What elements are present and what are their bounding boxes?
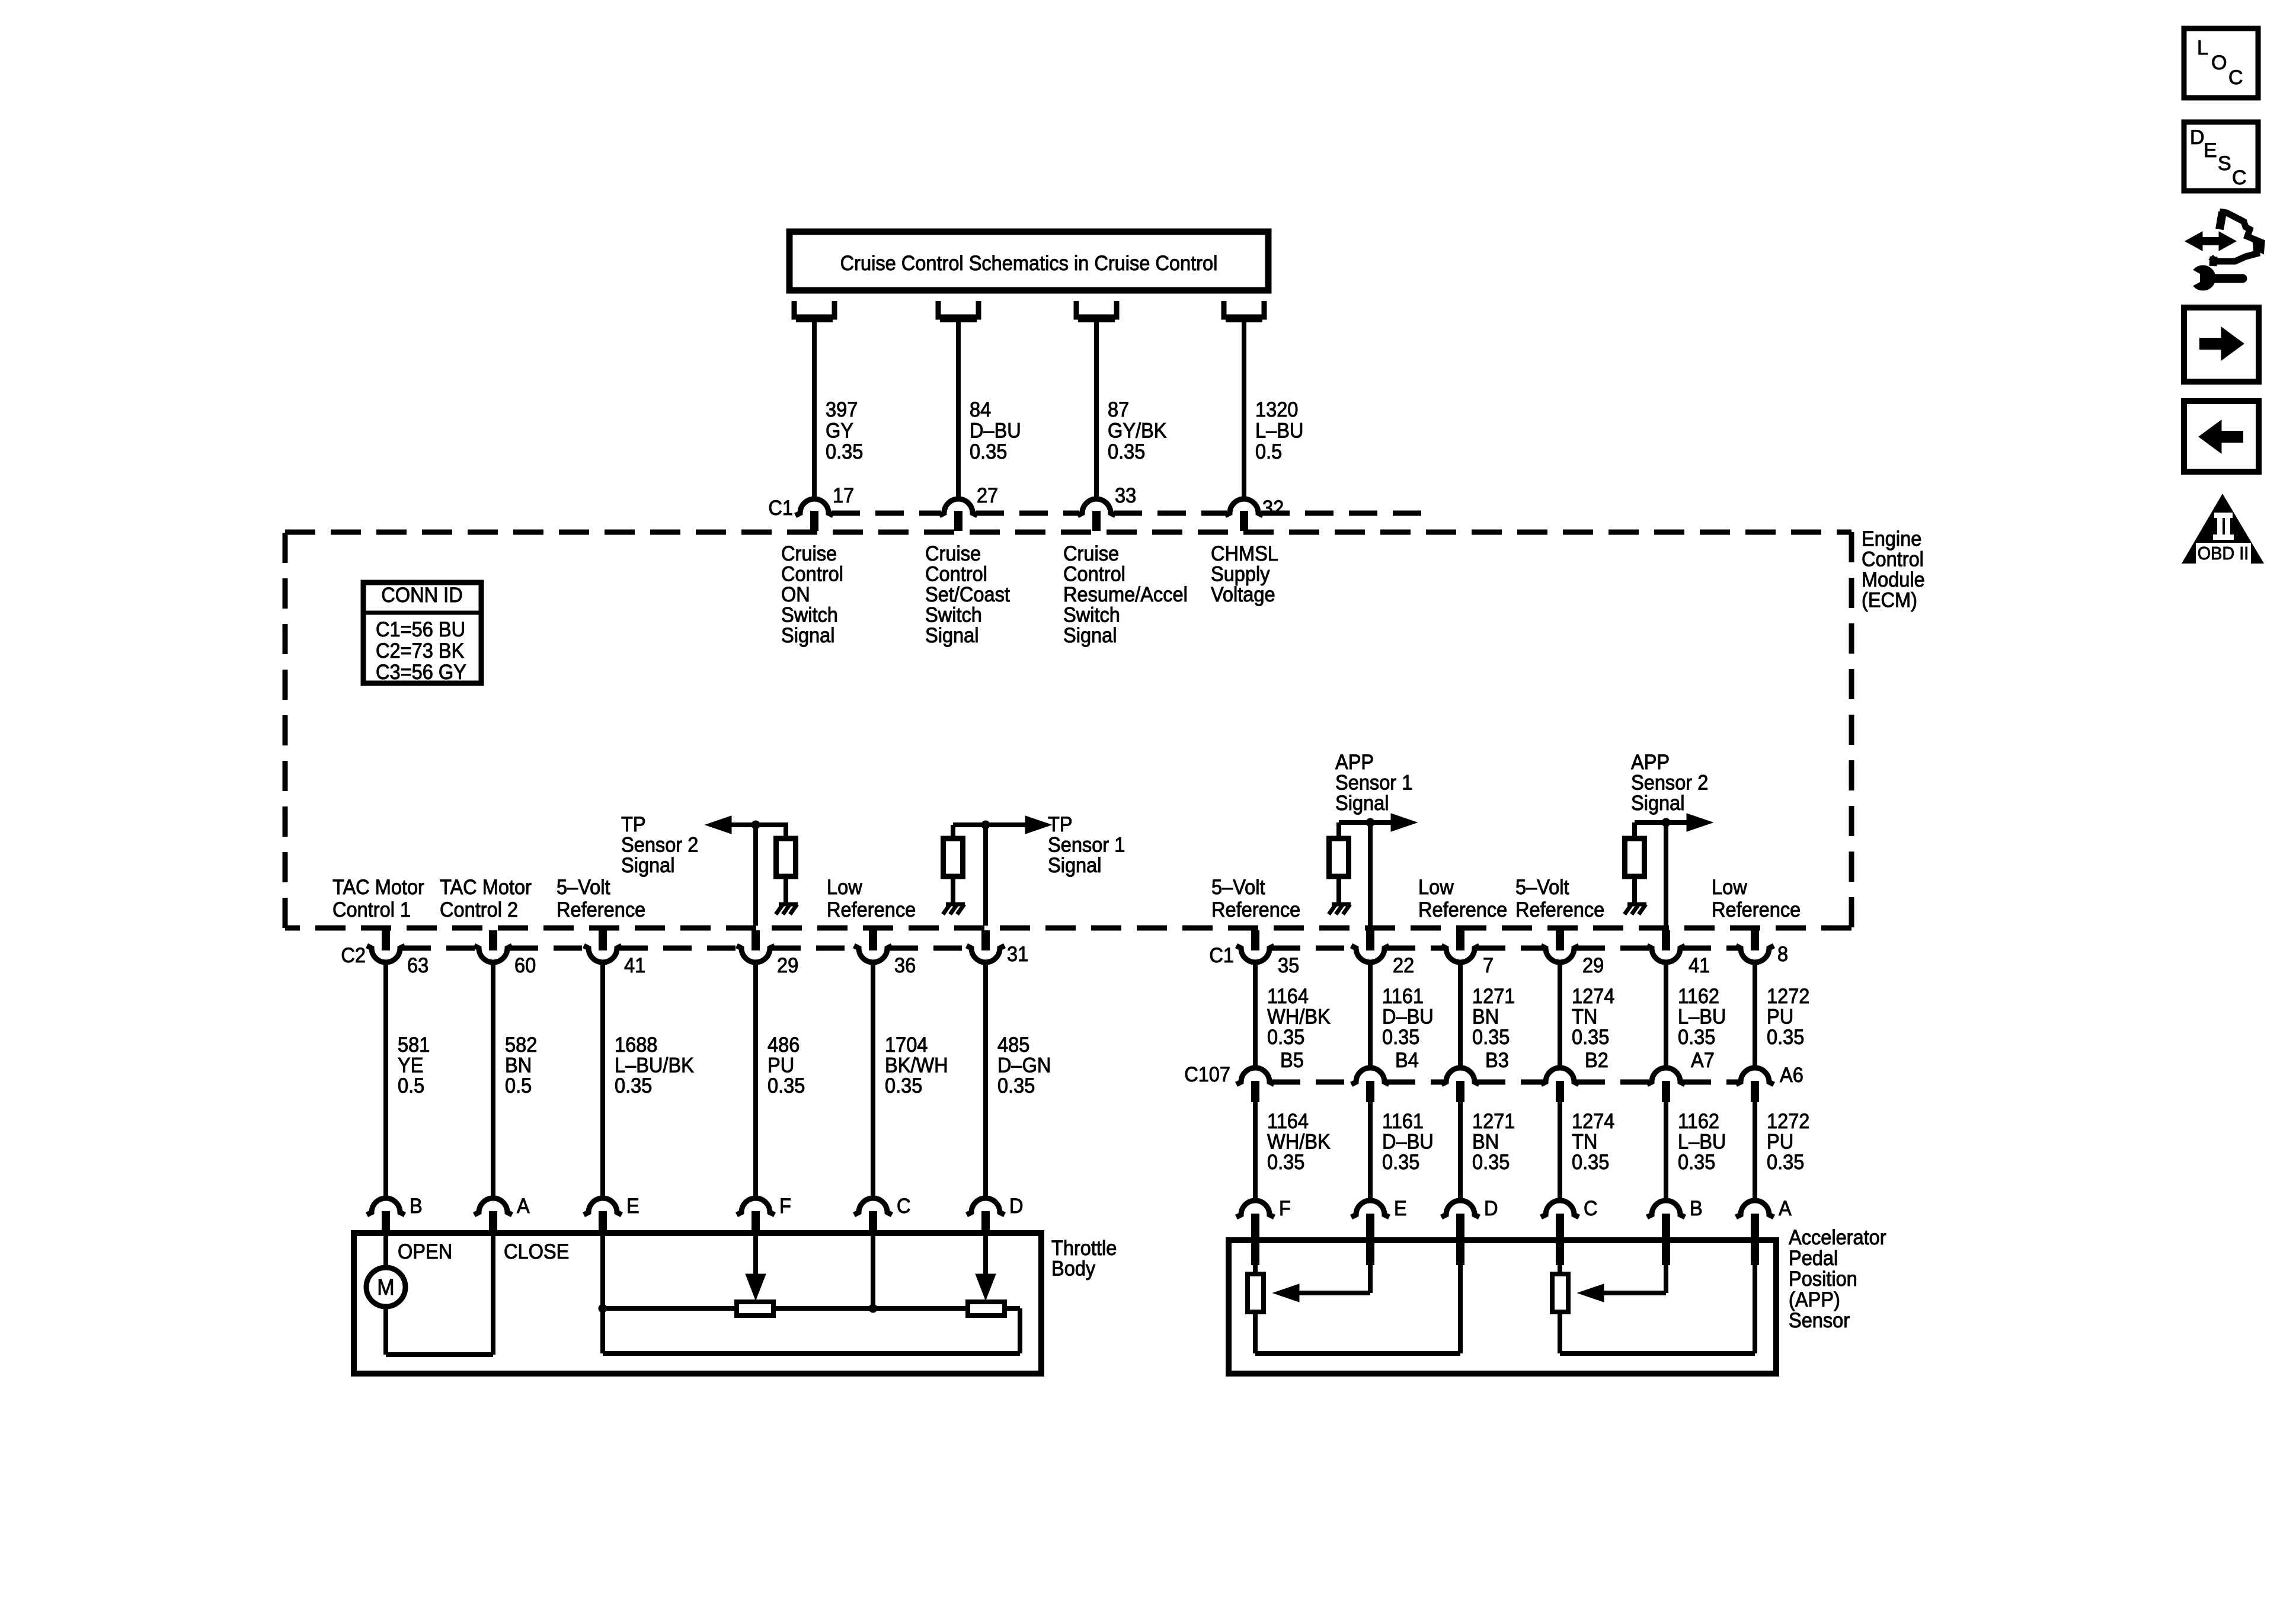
svg-text:32: 32 [1262,497,1284,520]
throttle body pin D terminal [967,1198,1005,1233]
ground symbol APP sensor 1 [1329,904,1351,914]
LOC icon box [2184,28,2258,98]
ECM name label [1862,527,1925,612]
wire label 1272 PU 0.35 (upper) [1767,985,1809,1049]
svg-text:L–BU: L–BU [1678,1006,1726,1029]
svg-text:A: A [517,1195,530,1218]
C2 pin 36 terminal [854,930,892,962]
svg-text:E: E [2204,139,2217,162]
wire label 582 BN 0.5 [505,1033,537,1097]
svg-text:29: 29 [777,954,798,977]
svg-text:Module: Module [1862,568,1925,591]
svg-text:0.5: 0.5 [1255,440,1282,463]
svg-text:B: B [410,1195,423,1218]
Accelerator Pedal Position sensor box [1229,1240,1776,1374]
inline connector bracket 3 below title box [1076,301,1117,319]
svg-text:Switch: Switch [925,604,982,627]
throttle motor M [366,1267,405,1307]
svg-text:PU: PU [1767,1006,1793,1029]
svg-text:0.35: 0.35 [1678,1151,1715,1174]
C1 pin number 27 [977,484,998,507]
svg-text:L–BU: L–BU [1678,1131,1726,1154]
C2 pin 63 terminal [367,930,405,962]
wire pin C low reference [871,1233,875,1308]
C1 pin number 7 [1483,954,1494,977]
svg-text:D–BU: D–BU [1382,1131,1434,1154]
C1 pin number 29 [1582,954,1604,977]
svg-text:C1: C1 [768,497,793,520]
svg-text:YE: YE [398,1054,423,1077]
svg-text:1274: 1274 [1572,1110,1614,1133]
resistor pull-up TP sensor 1 [944,838,963,876]
svg-text:60: 60 [514,954,536,977]
connector C1 top row dashed line [832,511,1422,516]
ground symbol APP sensor 2 [1625,904,1646,914]
svg-text:C1=56 BU: C1=56 BU [376,618,465,641]
ECM pin function label Low Reference [1418,876,1507,921]
wire label 397 GY 0.35 [826,398,863,463]
svg-text:33: 33 [1115,484,1136,507]
C1 pin number 35 [1278,954,1299,977]
C107 pin B5 terminal [1236,1068,1274,1102]
svg-text:485: 485 [997,1033,1029,1057]
ground symbol TP sensor 1 [943,904,965,914]
svg-text:D: D [1484,1197,1498,1220]
svg-text:Reference: Reference [1712,898,1801,921]
svg-text:GY: GY [826,420,853,443]
throttle body pin A terminal [474,1198,512,1233]
svg-text:0.35: 0.35 [826,440,863,463]
wire label 1320 L–BU 0.5 [1255,398,1303,463]
svg-text:1161: 1161 [1382,985,1424,1008]
throttle body pin E terminal [584,1198,622,1233]
svg-text:D: D [1009,1195,1024,1218]
svg-text:Reference: Reference [1515,898,1604,921]
wire label 87 GY/BK 0.35 [1108,398,1167,463]
C2 pin number 29 [777,954,798,977]
svg-text:Signal: Signal [781,624,835,647]
svg-text:0.35: 0.35 [970,440,1007,463]
svg-text:Reference: Reference [1418,898,1507,921]
svg-text:Low: Low [827,876,862,899]
signal label Cruise Control ON Switch Signal [781,542,843,647]
svg-text:CONN ID: CONN ID [381,584,462,607]
TP sensor 1 signal node: arrow wire junction [953,816,1051,926]
throttle body pin letter C [897,1195,911,1218]
svg-text:GY/BK: GY/BK [1108,420,1167,443]
C1 pin 8 terminal [1736,930,1774,962]
svg-text:D–BU: D–BU [970,420,1021,443]
svg-text:0.35: 0.35 [1472,1026,1510,1049]
svg-text:Sensor 2: Sensor 2 [621,834,698,857]
svg-text:35: 35 [1278,954,1299,977]
Throttle Body label [1051,1237,1117,1281]
svg-text:Cruise: Cruise [781,542,837,565]
svg-text:0.35: 0.35 [1767,1151,1804,1174]
svg-text:0.35: 0.35 [1108,440,1145,463]
APP sensor pin B terminal [1647,1201,1685,1265]
C1 pin 22 terminal [1351,930,1389,962]
svg-text:C: C [2232,167,2247,189]
OBD II triangle icon [2182,494,2264,564]
svg-text:B4: B4 [1395,1049,1419,1072]
svg-text:Signal: Signal [1335,792,1389,815]
TP sensor 1 potentiometer [968,1302,1005,1315]
ECM pin function label 5–Volt Reference [557,876,645,921]
svg-text:BK/WH: BK/WH [885,1054,948,1077]
svg-text:5–Volt: 5–Volt [1211,876,1265,899]
wire TP pot 1 right side return loop [603,1308,1020,1353]
wire label 1704 BK/WH 0.35 [885,1033,948,1097]
svg-text:0.35: 0.35 [1472,1151,1510,1174]
connector C107 label [1184,1063,1230,1086]
wire 1320 L-BU from switch to ECM C1 [1242,321,1246,500]
APP Sensor 1 Signal label [1335,751,1412,815]
throttle body pin B terminal [367,1198,405,1233]
wire 1274 TN ECM to C107 [1558,962,1562,1070]
C2 pin number 41 [624,954,645,977]
svg-text:Low: Low [1712,876,1747,899]
C2 pin number 60 [514,954,536,977]
svg-text:Control 2: Control 2 [440,898,518,921]
wire resistor to ground [784,876,788,904]
svg-text:41: 41 [624,954,645,977]
ECM pin function label TAC Motor Control 1 [332,876,424,921]
connector C2 label [341,944,366,967]
wire label 1161 D–BU 0.35 (upper) [1382,985,1434,1049]
C2 pin 31 terminal [967,930,1005,962]
svg-text:Resume/Accel: Resume/Accel [1063,583,1188,606]
APP Sensor 2 Signal label [1631,751,1708,815]
svg-text:Sensor 1: Sensor 1 [1335,772,1412,795]
C2 pin 60 terminal [474,930,512,962]
Engine Control Module (ECM) dashed box [285,532,1851,928]
svg-text:17: 17 [833,484,854,507]
CONN ID table [363,582,481,684]
ECM pin function label Low Reference [1712,876,1801,921]
wire 486 PU to throttle body [753,962,758,1199]
ECM pin function label 5–Volt Reference [1211,876,1300,921]
svg-text:WH/BK: WH/BK [1267,1006,1331,1029]
svg-text:0.35: 0.35 [1572,1026,1609,1049]
APP sensor name label [1789,1226,1886,1332]
svg-text:486: 486 [768,1033,800,1057]
svg-text:87: 87 [1108,398,1129,421]
wire pin C to APP pot 2 top [1558,1240,1562,1274]
svg-text:1272: 1272 [1767,1110,1809,1133]
svg-text:Signal: Signal [1631,792,1685,815]
svg-text:41: 41 [1689,954,1710,977]
C107 pin letter B4 [1395,1049,1419,1072]
svg-text:Throttle: Throttle [1051,1237,1117,1260]
svg-text:Signal: Signal [621,854,675,877]
svg-text:582: 582 [505,1033,537,1057]
svg-text:O: O [2211,52,2227,74]
svg-text:Sensor 2: Sensor 2 [1631,772,1708,795]
connector C1 bottom dashed line [1272,946,1738,951]
svg-text:Control: Control [1862,548,1924,571]
forward arrow icon box [2184,308,2259,382]
svg-text:0.35: 0.35 [1382,1151,1419,1174]
wire 1162 L–BU C107 to APP sensor [1664,1102,1668,1202]
svg-text:22: 22 [1393,954,1414,977]
inline connector bracket 1 below title box [794,301,834,319]
ECM pin function label TAC Motor Control 2 [440,876,532,921]
svg-text:APP: APP [1335,751,1374,774]
svg-text:Cruise: Cruise [1063,542,1119,565]
C1 pin number 41 [1689,954,1710,977]
svg-text:1164: 1164 [1267,985,1309,1008]
svg-text:Control: Control [1063,563,1125,586]
C2 pin 41 terminal [584,930,622,962]
svg-text:WH/BK: WH/BK [1267,1131,1331,1154]
wire 1162 L–BU ECM to C107 [1664,962,1668,1070]
resistor pull-up APP sensor 1 [1329,838,1349,876]
svg-text:B3: B3 [1485,1049,1509,1072]
svg-text:C2: C2 [341,944,366,967]
svg-text:0.5: 0.5 [398,1074,424,1097]
svg-text:TN: TN [1572,1131,1597,1154]
APP sensor pin E terminal [1351,1201,1389,1265]
svg-text:63: 63 [407,954,428,977]
C1 pin number 8 [1777,943,1788,966]
svg-text:Accelerator: Accelerator [1789,1226,1886,1249]
svg-text:TAC Motor: TAC Motor [332,876,424,899]
svg-text:0.35: 0.35 [1767,1026,1804,1049]
wire label 1161 D–BU 0.35 (lower) [1382,1110,1434,1174]
wiper arrow pin B to APP pot 2 [1578,1240,1666,1302]
svg-text:PU: PU [1767,1131,1793,1154]
C1 pin number 17 [833,484,854,507]
ECM pin function label 5–Volt Reference [1515,876,1604,921]
TP sensor 2 signal node: arrow wire junction [705,816,788,926]
svg-text:Switch: Switch [1063,604,1120,627]
C1 pin number 33 [1115,484,1136,507]
C1 pin number 32 [1262,497,1284,520]
svg-text:Low: Low [1418,876,1454,899]
wire label 1271 BN 0.35 (upper) [1472,985,1515,1049]
wiper arrow pin D to TP pot 1 [976,1233,996,1300]
svg-text:Body: Body [1051,1257,1096,1281]
svg-text:Switch: Switch [781,604,838,627]
C2 pin number 31 [1007,943,1028,966]
svg-text:B2: B2 [1585,1049,1609,1072]
svg-text:Voltage: Voltage [1211,583,1275,606]
wire 1688 L–BU/BK to throttle body [600,962,605,1199]
svg-text:Supply: Supply [1211,563,1270,586]
svg-text:D: D [2190,126,2205,149]
svg-text:0.35: 0.35 [1267,1026,1304,1049]
wire resistor to ground [1336,876,1341,904]
svg-text:0.35: 0.35 [1678,1026,1715,1049]
wire 1272 PU C107 to APP sensor [1753,1102,1757,1202]
signal label Cruise Control Set/Coast Switch Signal [925,542,1010,647]
wire pin B to motor [383,1233,388,1268]
svg-text:0.35: 0.35 [885,1074,922,1097]
wire 1161 D–BU ECM to C107 [1368,962,1373,1070]
C1 pin 33 terminal [1077,499,1115,531]
wire APP pot 2 bottom to pin A [1560,1240,1755,1353]
svg-text:31: 31 [1007,943,1028,966]
APP sensor pin A terminal [1736,1201,1774,1265]
svg-text:Control: Control [781,563,843,586]
svg-text:D–GN: D–GN [997,1054,1051,1077]
signal label Cruise Control Resume/Accel Switch Signal [1063,542,1188,647]
svg-text:1688: 1688 [615,1033,657,1057]
C1 pin number 22 [1393,954,1414,977]
wire TP pot 2 to junction C [773,1304,968,1313]
ECM pin function label Low Reference [827,876,916,921]
wire 87 GY/BK from switch to ECM C1 [1094,321,1099,500]
svg-text:A6: A6 [1780,1064,1803,1087]
svg-text:BN: BN [1472,1006,1499,1029]
cruise control switch assembly box [789,232,1268,290]
svg-text:S: S [2218,152,2231,175]
throttle body pin letter F [779,1195,791,1218]
svg-text:29: 29 [1582,954,1604,977]
APP sensor pin letter C [1584,1197,1598,1220]
wire 397 GY from switch to ECM C1 [812,321,817,500]
DESC icon box [2184,122,2258,191]
connector C107 dashed line [1272,1080,1738,1085]
throttle body pin letter E [626,1195,639,1218]
resistor pull-up TP sensor 2 [776,838,796,876]
svg-text:Cruise: Cruise [925,542,981,565]
svg-text:F: F [779,1195,791,1218]
wire label 1274 TN 0.35 (lower) [1572,1110,1614,1174]
APP sensor pin letter B [1690,1197,1703,1220]
wire resistor to ground [951,876,955,904]
wire label 1272 PU 0.35 (lower) [1767,1110,1809,1174]
wire 1161 D–BU C107 to APP sensor [1368,1102,1373,1202]
OPEN label [398,1240,452,1263]
svg-text:Signal: Signal [1048,854,1102,877]
svg-text:C1: C1 [1209,944,1234,967]
C1 pin 29 terminal [1541,930,1579,962]
svg-text:Engine: Engine [1862,527,1921,550]
C107 pin B4 terminal [1351,1068,1389,1102]
C107 pin A7 terminal [1647,1068,1685,1102]
svg-text:C: C [1584,1197,1598,1220]
wire 1164 WH/BK ECM to C107 [1253,962,1258,1070]
resistor pull-up APP sensor 2 [1625,838,1645,876]
svg-text:E: E [1394,1197,1407,1220]
svg-text:TN: TN [1572,1006,1597,1029]
svg-text:1162: 1162 [1678,1110,1719,1133]
svg-text:1162: 1162 [1678,985,1719,1008]
Throttle Body box [354,1233,1041,1374]
svg-text:C: C [897,1195,911,1218]
wire 1271 BN ECM to C107 [1458,962,1463,1070]
svg-text:Position: Position [1789,1267,1857,1291]
inline connector bracket 2 below title box [938,301,978,319]
svg-text:C3=56 GY: C3=56 GY [376,661,466,684]
svg-text:Cruise Control Schematics in C: Cruise Control Schematics in Cruise Cont… [840,252,1218,275]
APP sensor pin letter A [1779,1197,1792,1220]
wire 485 D–GN to throttle body [983,962,988,1199]
APP sensor pin letter F [1279,1197,1291,1220]
svg-text:L: L [2197,37,2208,59]
throttle body pin letter D [1009,1195,1024,1218]
C107 pin B2 terminal [1541,1068,1579,1102]
svg-text:1271: 1271 [1472,1110,1515,1133]
C1 pin 7 terminal [1441,930,1479,962]
APP sensor pin letter D [1484,1197,1498,1220]
APP sensor 1 potentiometer [1248,1274,1264,1312]
svg-text:L–BU: L–BU [1255,420,1303,443]
C107 pin letter B2 [1585,1049,1609,1072]
wire label 84 D–BU 0.35 [970,398,1021,463]
wire 581 YE to throttle body [383,962,388,1199]
wire 1704 BK/WH to throttle body [871,962,875,1199]
svg-text:A7: A7 [1691,1049,1715,1072]
wire resistor to ground [1632,876,1637,904]
throttle body pin C terminal [854,1198,892,1233]
wiper arrow pin E to APP pot 1 [1273,1240,1370,1302]
APP sensor pin D terminal [1441,1201,1479,1265]
C107 pin A6 terminal [1736,1068,1774,1102]
wire E to TP pot 2 [603,1306,737,1311]
C107 pin B3 terminal [1441,1068,1479,1102]
APP sensor 2 potentiometer [1552,1274,1568,1312]
CLOSE label [504,1240,569,1263]
svg-text:E: E [626,1195,639,1218]
svg-text:Reference: Reference [557,898,645,921]
throttle body pin letter A [517,1195,530,1218]
wire label 1162 L–BU 0.35 (upper) [1678,985,1726,1049]
svg-text:TP: TP [621,813,646,836]
svg-text:397: 397 [826,398,858,421]
wire label 1162 L–BU 0.35 (lower) [1678,1110,1726,1174]
wire 582 BN to throttle body [491,962,495,1199]
svg-text:Control: Control [925,563,987,586]
svg-text:C2=73 BK: C2=73 BK [376,639,464,662]
diagnostic tool icon with double arrow and wrench [2185,212,2262,290]
svg-text:Signal: Signal [1063,624,1117,647]
connector C1 label (bottom row) [1209,944,1234,967]
inline connector bracket 4 below title box [1224,301,1264,319]
svg-text:0.35: 0.35 [1572,1151,1609,1174]
wire pin F to APP pot 1 top [1253,1240,1258,1274]
C1 pin 17 terminal [795,499,833,531]
svg-text:TP: TP [1048,813,1073,836]
svg-text:B5: B5 [1280,1049,1304,1072]
wire 1164 WH/BK C107 to APP sensor [1253,1102,1258,1202]
svg-text:Sensor: Sensor [1789,1309,1850,1332]
C107 pin letter B3 [1485,1049,1509,1072]
wire label 581 YE 0.5 [398,1033,430,1097]
svg-text:27: 27 [977,484,998,507]
wire label 1688 L–BU/BK 0.35 [615,1033,694,1097]
svg-text:84: 84 [970,398,991,421]
svg-text:0.5: 0.5 [505,1074,532,1097]
wire 84 D-BU from switch to ECM C1 [956,321,961,500]
TP Sensor 2 Signal label [621,813,698,877]
C2 pin number 36 [894,954,916,977]
wiper arrow pin F to TP pot 2 [746,1233,766,1300]
svg-text:C107: C107 [1184,1063,1230,1086]
svg-text:36: 36 [894,954,916,977]
APP sensor pin F terminal [1236,1201,1274,1265]
svg-text:1271: 1271 [1472,985,1515,1008]
C107 pin letter A6 [1780,1064,1803,1087]
wire label 486 PU 0.35 [768,1033,805,1097]
wire pin E 5-volt into TP potentiometers [599,1233,607,1313]
svg-text:Pedal: Pedal [1789,1247,1838,1270]
svg-text:Signal: Signal [925,624,979,647]
svg-text:CHMSL: CHMSL [1211,542,1278,565]
C1 pin 35 terminal [1236,930,1274,962]
